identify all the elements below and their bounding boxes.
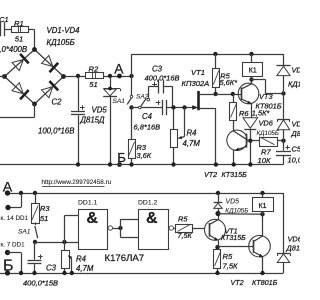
svg-text:R6: R6 [239, 109, 249, 118]
svg-text:C1: C1 [0, 15, 9, 24]
svg-text:VD6: VD6 [259, 119, 274, 128]
svg-text:&: & [86, 210, 98, 227]
svg-text:VD6: VD6 [288, 235, 301, 244]
svg-text:R3: R3 [40, 204, 50, 213]
svg-text:7,5К: 7,5К [178, 231, 193, 240]
svg-text:КТ315Б: КТ315Б [221, 235, 246, 242]
svg-text:VD5: VD5 [92, 106, 108, 115]
svg-text:к. 7 DD1: к. 7 DD1 [1, 242, 26, 249]
svg-text:C3: C3 [152, 65, 163, 74]
svg-text:VD1-VD4: VD1-VD4 [47, 26, 81, 35]
svg-text:К1: К1 [249, 67, 257, 74]
svg-text:VT1: VT1 [191, 68, 205, 77]
svg-text:Д815А: Д815А [286, 244, 301, 253]
svg-text:400,0*15В: 400,0*15В [23, 279, 58, 288]
svg-text:КП302А: КП302А [182, 79, 210, 88]
svg-text:КТ315Б: КТ315Б [222, 170, 248, 179]
svg-text:КД105Б: КД105Б [288, 80, 300, 89]
svg-text:400,0*16В: 400,0*16В [145, 74, 180, 83]
svg-text:100,0*16В: 100,0*16В [38, 127, 74, 136]
svg-text:C2: C2 [52, 98, 63, 107]
svg-text:DD1.2: DD1.2 [138, 200, 157, 207]
svg-text:R4: R4 [187, 129, 198, 138]
svg-text:http://www.299792458.ru: http://www.299792458.ru [42, 179, 112, 186]
svg-text:КТ801Б: КТ801Б [252, 278, 278, 287]
svg-text:C3: C3 [46, 264, 57, 273]
svg-text:R5: R5 [178, 214, 188, 223]
svg-text:КД105Б: КД105Б [257, 130, 279, 137]
svg-text:C4: C4 [142, 112, 153, 121]
svg-text:2,0*400В: 2,0*400В [0, 45, 27, 54]
svg-text:&: & [146, 210, 158, 227]
svg-text:R5: R5 [223, 252, 233, 261]
svg-text:10,0: 10,0 [288, 156, 301, 165]
svg-text:51: 51 [15, 34, 23, 43]
svg-text:SA2: SA2 [136, 94, 149, 101]
svg-text:5,6К*: 5,6К* [220, 78, 239, 87]
svg-text:С5: С5 [292, 145, 301, 154]
svg-text:VT2: VT2 [204, 170, 217, 179]
svg-text:Д814: Д814 [291, 129, 301, 138]
svg-text:7,5К: 7,5К [223, 262, 239, 271]
svg-text:SA1: SA1 [113, 98, 126, 105]
svg-text:А: А [114, 61, 124, 76]
svg-text:51: 51 [40, 214, 48, 223]
svg-text:А: А [3, 179, 13, 195]
svg-text:R2: R2 [89, 64, 99, 73]
svg-text:R4: R4 [76, 255, 87, 264]
svg-text:4,7М: 4,7М [76, 264, 94, 273]
svg-text:DD1.1: DD1.1 [78, 200, 97, 207]
svg-text:10К: 10К [258, 156, 271, 165]
svg-text:Д815Д: Д815Д [80, 116, 105, 125]
svg-text:VD8: VD8 [292, 120, 301, 129]
svg-text:VD5: VD5 [226, 199, 240, 206]
svg-text:SA1: SA1 [18, 229, 31, 236]
svg-text:VT1: VT1 [225, 227, 238, 236]
svg-text:КД105Б: КД105Б [47, 38, 75, 47]
svg-text:51: 51 [89, 80, 97, 89]
svg-text:к. 14 DD1: к. 14 DD1 [1, 215, 29, 222]
svg-text:4,7М: 4,7М [183, 139, 201, 148]
svg-text:КТ801Б: КТ801Б [256, 102, 282, 111]
svg-text:6,8*16В: 6,8*16В [134, 123, 161, 132]
svg-text:3,6К: 3,6К [137, 151, 152, 160]
svg-text:R1: R1 [14, 19, 24, 28]
svg-text:К1: К1 [259, 203, 267, 210]
svg-text:VT2: VT2 [231, 278, 244, 287]
svg-text:VD7: VD7 [292, 66, 301, 75]
svg-text:К176ЛА7: К176ЛА7 [105, 253, 145, 264]
